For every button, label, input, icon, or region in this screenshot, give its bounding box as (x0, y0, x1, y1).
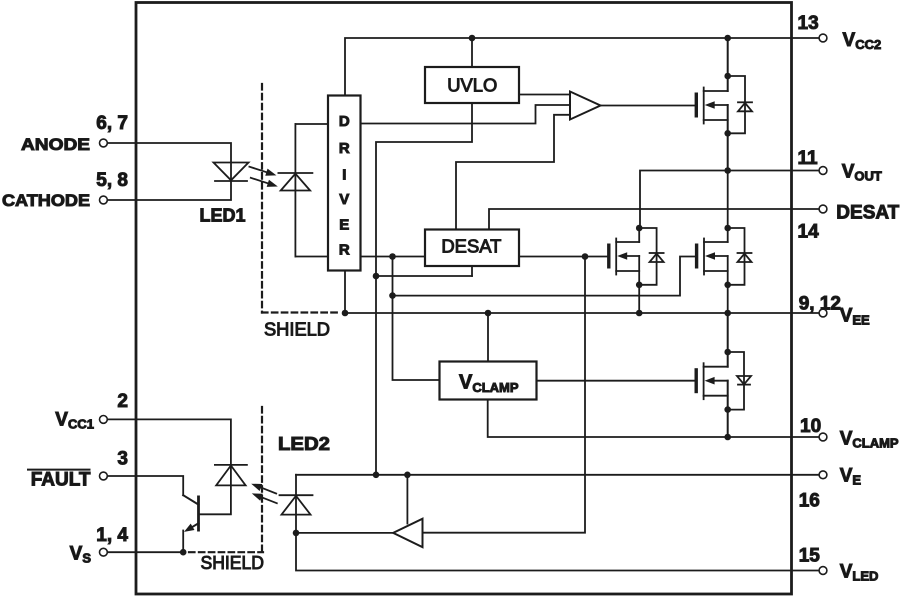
svg-text:LED1: LED1 (200, 206, 246, 226)
svg-text:VS: VS (70, 544, 92, 566)
svg-text:CATHODE: CATHODE (2, 191, 90, 210)
svg-text:SHIELD: SHIELD (201, 553, 265, 573)
svg-text:13: 13 (798, 13, 819, 34)
svg-text:ANODE: ANODE (21, 135, 90, 154)
svg-text:SHIELD: SHIELD (264, 320, 330, 340)
svg-text:FAULT: FAULT (31, 469, 91, 490)
svg-text:14: 14 (798, 222, 820, 243)
svg-text:DESAT: DESAT (836, 203, 899, 224)
svg-text:11: 11 (798, 148, 819, 169)
svg-text:DESAT: DESAT (441, 237, 501, 257)
svg-text:15: 15 (799, 546, 821, 567)
svg-text:10: 10 (800, 416, 821, 437)
svg-text:9, 12: 9, 12 (799, 293, 841, 314)
svg-text:V: V (339, 191, 349, 208)
svg-text:VEE: VEE (840, 306, 870, 328)
svg-text:I: I (342, 166, 346, 183)
svg-text:VOUT: VOUT (842, 162, 882, 184)
svg-text:2: 2 (117, 391, 128, 412)
svg-text:16: 16 (799, 491, 820, 512)
svg-text:UVLO: UVLO (447, 76, 497, 96)
svg-text:5, 8: 5, 8 (96, 170, 128, 191)
svg-text:D: D (339, 113, 350, 130)
svg-text:LED2: LED2 (278, 434, 330, 454)
svg-text:3: 3 (117, 448, 128, 469)
svg-text:VCC1: VCC1 (55, 410, 94, 432)
svg-text:6, 7: 6, 7 (96, 113, 128, 134)
svg-text:VE: VE (840, 465, 862, 487)
svg-text:E: E (339, 216, 349, 233)
svg-text:1, 4: 1, 4 (96, 525, 128, 546)
svg-text:R: R (339, 140, 350, 157)
svg-text:VCLAMP: VCLAMP (840, 429, 899, 451)
svg-text:R: R (339, 242, 350, 259)
svg-text:VCC2: VCC2 (843, 30, 882, 52)
svg-text:VLED: VLED (840, 562, 879, 584)
